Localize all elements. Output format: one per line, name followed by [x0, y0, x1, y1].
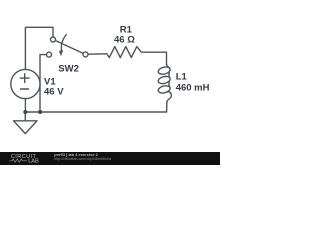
- switch SW2 lever: [55, 41, 83, 54]
- node junction dot at V1 bottom: [23, 110, 27, 114]
- switch SW2 toggle arrow arc: [61, 35, 66, 52]
- wire: V1 top to switch top terminal: [25, 27, 53, 69]
- switch SW2 arrowhead: [59, 50, 63, 56]
- watermark bar: [0, 152, 220, 165]
- svg-text:46 Ω: 46 Ω: [114, 35, 135, 46]
- svg-text:http://circuitlab.com/c6y446mi: http://circuitlab.com/c6y446mif4b2w: [54, 157, 111, 161]
- svg-text:LAB: LAB: [28, 159, 39, 165]
- voltage source V1: [11, 69, 40, 98]
- wire: switch left throw down to bottom rail: [40, 55, 47, 112]
- switch SW2 left throw terminal: [47, 52, 52, 57]
- resistor R1: [107, 47, 167, 65]
- inductor L1 coil: [157, 66, 170, 76]
- switch SW2 top terminal: [51, 37, 56, 42]
- wire: switch common to resistor to inductor top: [88, 53, 107, 55]
- svg-text:46 V: 46 V: [44, 86, 64, 97]
- inductor L1 coil connectors: [167, 64, 170, 68]
- svg-text:L1: L1: [176, 72, 188, 83]
- switch SW2 common terminal: [83, 52, 88, 57]
- svg-text:460 mH: 460 mH: [176, 83, 210, 94]
- V1 plus sign: [20, 74, 29, 83]
- svg-text:SW2: SW2: [58, 64, 79, 75]
- CircuitLab logo zigzag: [10, 159, 28, 162]
- ground symbol: [24, 112, 26, 121]
- wire: bottom rail and inductor bottom lead: [25, 103, 166, 113]
- node junction dot at switch throw wire: [38, 110, 42, 114]
- wire: V1 bottom to bottom rail: [24, 99, 26, 112]
- V1 minus sign: [21, 88, 29, 90]
